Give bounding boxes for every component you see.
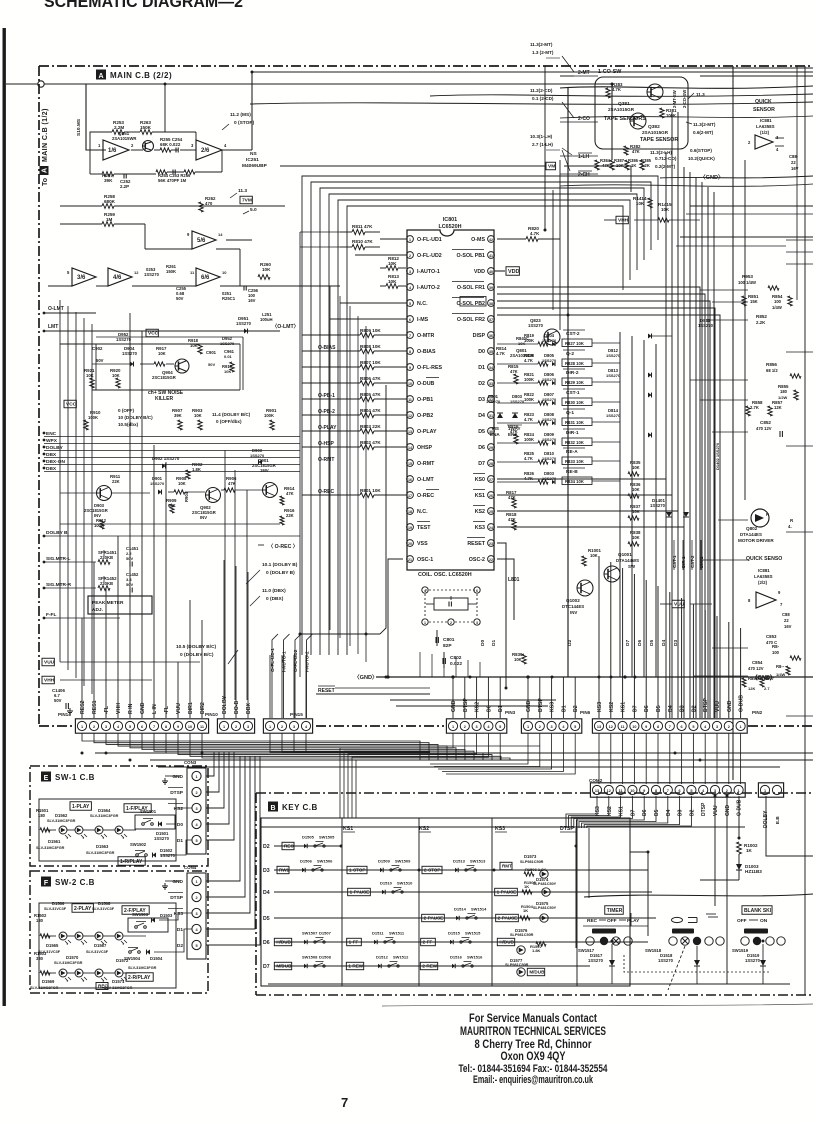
resistor R829 10K (boxed) bbox=[562, 378, 592, 386]
svg-text:KS2: KS2 bbox=[607, 806, 613, 816]
svg-text:DBX: DBX bbox=[246, 703, 252, 714]
svg-text:3: 3 bbox=[409, 270, 411, 274]
svg-text:D2: D2 bbox=[573, 705, 579, 712]
svg-text:23: 23 bbox=[489, 542, 493, 546]
svg-text:4: 4 bbox=[424, 589, 426, 593]
svg-text:10K: 10K bbox=[661, 207, 670, 212]
svg-text:D2: D2 bbox=[691, 705, 697, 712]
connector PIN10 bbox=[217, 719, 254, 733]
svg-text:50V: 50V bbox=[54, 698, 62, 703]
svg-text:C852: C852 bbox=[760, 420, 771, 425]
svg-text:KS2: KS2 bbox=[174, 806, 184, 812]
right edge horizontal stubs bbox=[786, 239, 813, 241]
svg-text:D902 1SS270: D902 1SS270 bbox=[152, 456, 180, 461]
svg-text:10K: 10K bbox=[262, 267, 271, 272]
transistor Q381 2SA1015GR bbox=[647, 84, 663, 100]
diode D811 1SS270 row CST-2 bbox=[648, 334, 652, 339]
svg-text:D6: D6 bbox=[263, 940, 270, 946]
CON3 pin 4 D0 bbox=[192, 819, 201, 828]
row wire bbox=[274, 941, 648, 943]
svg-text:OFF: OFF bbox=[607, 918, 617, 924]
svg-text:D1504: D1504 bbox=[150, 956, 163, 961]
svg-text:2.7: 2.7 bbox=[764, 686, 770, 691]
svg-text:40: 40 bbox=[489, 270, 493, 274]
svg-text:KS3: KS3 bbox=[597, 702, 603, 712]
svg-text:-FL: -FL bbox=[104, 705, 110, 714]
svg-text:10.1 (DOLBY B): 10.1 (DOLBY B) bbox=[262, 562, 298, 568]
svg-text:5: 5 bbox=[129, 725, 131, 729]
svg-text:68 1/2: 68 1/2 bbox=[766, 368, 778, 373]
svg-text:10: 10 bbox=[630, 789, 634, 793]
PEAK METER ADJ box bbox=[88, 596, 152, 614]
svg-text:2: 2 bbox=[464, 725, 466, 729]
IC pin 8 O-BIAS bbox=[407, 348, 414, 355]
svg-text:SLV-31VC3F: SLV-31VC3F bbox=[86, 950, 109, 954]
wire DTSP drop bbox=[588, 828, 590, 898]
svg-text:12: 12 bbox=[408, 414, 412, 418]
coil L801 pins 1 2 3 bbox=[422, 619, 428, 625]
svg-text:C801: C801 bbox=[443, 637, 455, 643]
wire matrix to SW1518 bbox=[630, 852, 648, 936]
svg-text:1SS270: 1SS270 bbox=[144, 272, 160, 277]
svg-text:KS3: KS3 bbox=[550, 702, 556, 712]
svg-text:D1506: D1506 bbox=[300, 859, 313, 864]
svg-text:SW1507: SW1507 bbox=[302, 931, 318, 936]
wire RESET pin down bbox=[497, 543, 506, 688]
svg-text:ON: ON bbox=[760, 918, 768, 924]
op-amp IC881a bbox=[755, 135, 773, 149]
svg-text:11: 11 bbox=[408, 398, 412, 402]
svg-text:10.2(QUICK): 10.2(QUICK) bbox=[688, 156, 715, 161]
svg-text:TAPE SENSOR: TAPE SENSOR bbox=[640, 137, 678, 143]
svg-text:E: E bbox=[44, 775, 49, 782]
svg-text:To: To bbox=[42, 178, 49, 186]
svg-text:4: 4 bbox=[195, 928, 198, 932]
svg-text:10: 10 bbox=[188, 725, 192, 729]
IC pin 11 O-PB1 bbox=[407, 396, 414, 403]
svg-text:VCC: VCC bbox=[148, 331, 159, 337]
svg-text:180: 180 bbox=[38, 813, 46, 818]
svg-text:SLP981C50R: SLP981C50R bbox=[505, 963, 529, 967]
svg-text:4.7K: 4.7K bbox=[524, 417, 533, 422]
boxed label 2-PLAY bbox=[72, 904, 93, 913]
svg-text:100K: 100K bbox=[88, 415, 98, 420]
KEY matrix top bus wire bbox=[261, 826, 745, 828]
svg-text:I-AUTO-2: I-AUTO-2 bbox=[305, 651, 311, 672]
svg-text:O-REC: O-REC bbox=[417, 493, 434, 499]
LED D1572 bbox=[75, 969, 83, 977]
svg-text:1SS270: 1SS270 bbox=[745, 958, 761, 963]
connector PIN15 bbox=[263, 719, 312, 733]
svg-text:D1564: D1564 bbox=[98, 808, 111, 813]
wires lower opamp row bbox=[48, 285, 72, 287]
svg-text:1SS270: 1SS270 bbox=[606, 413, 621, 418]
KEY matrix inner frame bbox=[261, 818, 630, 986]
wire horizontal O-LMT to IC bbox=[96, 313, 406, 479]
transistor Q902 2SC1815GR INV bbox=[206, 488, 221, 503]
svg-text:D1569: D1569 bbox=[42, 979, 55, 984]
wire bbox=[302, 494, 360, 496]
svg-text:50V: 50V bbox=[96, 358, 104, 363]
svg-text:KS1: KS1 bbox=[619, 806, 625, 816]
svg-text:GND: GND bbox=[727, 700, 733, 712]
CON3 pin 5 D1 bbox=[192, 835, 201, 844]
wires KS0-KS3 to right bundle bbox=[497, 478, 666, 480]
svg-text:O-HSP: O-HSP bbox=[318, 441, 335, 447]
LED D1568 bbox=[75, 932, 83, 940]
svg-text:CON3: CON3 bbox=[184, 760, 197, 765]
svg-text:D4: D4 bbox=[478, 413, 485, 419]
svg-text:SW1509: SW1509 bbox=[395, 859, 411, 864]
svg-text:1SS270: 1SS270 bbox=[236, 321, 252, 326]
svg-text:7VM: 7VM bbox=[242, 198, 252, 204]
wire bus: left fan to PIN14 bbox=[81, 618, 83, 718]
key switch 1-REW (D1512 SW1512) bbox=[346, 962, 363, 969]
svg-text:VUU: VUU bbox=[176, 703, 182, 714]
svg-text:100 1/4W: 100 1/4W bbox=[738, 280, 756, 285]
main board bottom dash-dot between connector boxes bbox=[316, 725, 444, 727]
svg-text:11: 11 bbox=[190, 270, 195, 275]
svg-text:C902: C902 bbox=[92, 346, 103, 351]
wire bus: long horizontals below connector row bbox=[95, 752, 813, 754]
CON4 pin 3 KS3 bbox=[192, 908, 201, 917]
wire bus: left verticals under opamp block bbox=[59, 300, 61, 662]
svg-text:0.6(2-MT): 0.6(2-MT) bbox=[693, 130, 714, 135]
IC pin 34 D1 bbox=[488, 364, 495, 371]
boxed label VM bbox=[280, 165, 546, 167]
svg-text:ENA: ENA bbox=[490, 432, 500, 437]
svg-text:DOLBY B: DOLBY B bbox=[46, 530, 68, 536]
svg-text:5: 5 bbox=[692, 725, 694, 729]
svg-text:D1509: D1509 bbox=[378, 859, 391, 864]
svg-text:7: 7 bbox=[780, 602, 783, 607]
svg-text:1-FF: 1-FF bbox=[349, 940, 359, 945]
svg-text:2.2K: 2.2K bbox=[756, 320, 766, 325]
svg-text:2-MT-SW: 2-MT-SW bbox=[672, 90, 677, 108]
IC pin 26 KS1 bbox=[488, 492, 495, 499]
svg-text:TIMER: TIMER bbox=[607, 908, 623, 914]
svg-text:22: 22 bbox=[784, 618, 789, 623]
svg-text:A: A bbox=[42, 168, 49, 173]
svg-text:R811 47K: R811 47K bbox=[352, 224, 373, 229]
wire bus: COM2 fan nested elbows bbox=[566, 796, 597, 828]
svg-text:IC881: IC881 bbox=[758, 568, 770, 573]
svg-text:20: 20 bbox=[408, 542, 412, 546]
svg-text:8: 8 bbox=[748, 598, 751, 603]
svg-text:PIN6: PIN6 bbox=[580, 710, 591, 715]
main board A dash-dot border top bbox=[39, 65, 813, 67]
overbars on IC pin labels bbox=[426, 377, 439, 379]
svg-text:VUU: VUU bbox=[713, 805, 719, 816]
LED D1567 bbox=[115, 932, 123, 940]
svg-text:B: B bbox=[270, 805, 275, 812]
svg-text:11.3(2-MT): 11.3(2-MT) bbox=[530, 42, 553, 47]
svg-text:I-AUTO-1: I-AUTO-1 bbox=[417, 269, 440, 275]
svg-text:2SC1815GR: 2SC1815GR bbox=[152, 375, 176, 380]
IC pin 18 N.C. bbox=[407, 508, 414, 515]
svg-text:D2: D2 bbox=[478, 381, 485, 387]
boxed label 1-PAUSE col3 and LED D1574 SLP481C50Y bbox=[495, 888, 518, 895]
wire bbox=[302, 446, 360, 448]
svg-text:1K: 1K bbox=[523, 908, 528, 913]
svg-text:1-PAUSE: 1-PAUSE bbox=[350, 890, 370, 895]
svg-text:470 C: 470 C bbox=[766, 640, 777, 645]
IC pin 3 I-AUTO-1 bbox=[407, 268, 414, 275]
svg-text:1: 1 bbox=[269, 725, 271, 729]
svg-text:3: 3 bbox=[293, 725, 295, 729]
svg-text:15: 15 bbox=[408, 462, 412, 466]
svg-text:SW1514: SW1514 bbox=[471, 907, 487, 912]
svg-text:1.8K: 1.8K bbox=[532, 948, 541, 953]
svg-text:SW1511: SW1511 bbox=[389, 931, 405, 936]
svg-text:10K: 10K bbox=[632, 465, 640, 470]
svg-text:1: 1 bbox=[409, 238, 411, 242]
svg-text:SCHEMATIC DIAGRAM—2: SCHEMATIC DIAGRAM—2 bbox=[44, 0, 243, 11]
svg-text:O-FL-UD2: O-FL-UD2 bbox=[417, 253, 442, 259]
svg-text:220KB: 220KB bbox=[100, 555, 113, 560]
svg-text:O-RMT: O-RMT bbox=[318, 457, 334, 463]
resistor R828 10K (boxed) bbox=[562, 359, 592, 367]
svg-text:E.B: E.B bbox=[775, 816, 780, 824]
boxed label 1-PLAY bbox=[70, 802, 91, 811]
svg-text:O-REC: O-REC bbox=[318, 489, 335, 495]
IC pin 23 RESET bbox=[488, 540, 495, 547]
svg-text:37: 37 bbox=[489, 318, 493, 322]
op-amp U251a 1/6 bbox=[103, 140, 129, 160]
switch SW1504 bbox=[128, 947, 138, 949]
wire bbox=[302, 382, 360, 384]
svg-text:I-MS: I-MS bbox=[417, 317, 429, 323]
svg-text:Q-2: Q-2 bbox=[566, 351, 574, 357]
svg-text:O-FL-UD2: O-FL-UD2 bbox=[293, 649, 299, 672]
svg-text:D3: D3 bbox=[673, 640, 679, 646]
svg-text:TEST: TEST bbox=[417, 525, 431, 531]
svg-text:D4: D4 bbox=[666, 809, 672, 816]
svg-text:D4: D4 bbox=[661, 640, 667, 646]
wire vertical left of coil bbox=[380, 385, 386, 634]
svg-text:56K 470PF 1M: 56K 470PF 1M bbox=[158, 178, 187, 183]
svg-text:11.3(2-LH): 11.3(2-LH) bbox=[650, 150, 672, 155]
svg-text:MS: MS bbox=[492, 426, 499, 431]
svg-text:C853: C853 bbox=[766, 634, 777, 639]
motor driver Q802 DTA144ES bbox=[751, 509, 769, 527]
svg-text:11.3(2-MT): 11.3(2-MT) bbox=[693, 122, 716, 127]
svg-text:2.7 (1-LH): 2.7 (1-LH) bbox=[532, 142, 553, 147]
svg-text:2/6: 2/6 bbox=[201, 148, 210, 154]
svg-text:12K: 12K bbox=[748, 686, 755, 691]
IC U801 LC6520H body bbox=[407, 230, 494, 570]
svg-text:RW1: RW1 bbox=[279, 868, 290, 873]
svg-text:GND: GND bbox=[172, 774, 183, 780]
diode D1503 bbox=[152, 918, 156, 923]
svg-text:3: 3 bbox=[105, 725, 107, 729]
svg-text:SW1508: SW1508 bbox=[302, 955, 318, 960]
svg-text:PIN3: PIN3 bbox=[505, 710, 516, 715]
svg-text:VHH: VHH bbox=[44, 678, 55, 684]
svg-text:1/4W: 1/4W bbox=[772, 305, 782, 310]
svg-text:2: 2 bbox=[748, 140, 751, 145]
key switch 2-FF (D1515 SW1515) bbox=[421, 938, 436, 945]
boxed label VCC lower bbox=[64, 400, 76, 408]
svg-text:L801: L801 bbox=[508, 577, 520, 583]
svg-text:KEY C.B: KEY C.B bbox=[282, 803, 318, 812]
svg-text:IC801: IC801 bbox=[443, 217, 457, 223]
svg-text:2-PLAY: 2-PLAY bbox=[74, 906, 92, 912]
svg-text:1-REW: 1-REW bbox=[348, 964, 363, 969]
svg-text:D1566: D1566 bbox=[52, 901, 65, 906]
svg-text:PIN2: PIN2 bbox=[752, 710, 763, 715]
wire noise killer rails bbox=[60, 343, 240, 345]
svg-text:D7: D7 bbox=[632, 705, 638, 712]
svg-text:GND: GND bbox=[140, 702, 146, 714]
svg-text:Q1001: Q1001 bbox=[618, 552, 632, 557]
svg-text:10: 10 bbox=[408, 382, 412, 386]
svg-text:3: 3 bbox=[551, 725, 553, 729]
svg-text:1: 1 bbox=[424, 621, 426, 625]
svg-text:0.2(2-MT): 0.2(2-MT) bbox=[655, 164, 676, 169]
wire O-DUB drop from COM2 bbox=[738, 796, 740, 838]
svg-text:5: 5 bbox=[195, 839, 197, 843]
svg-text:9: 9 bbox=[778, 590, 781, 595]
svg-text:10K: 10K bbox=[632, 509, 640, 514]
IC pin 21 OSC-1 bbox=[407, 556, 414, 563]
svg-text:11.2 (MS): 11.2 (MS) bbox=[230, 112, 251, 118]
svg-text:O-PB-2: O-PB-2 bbox=[318, 409, 335, 415]
svg-text:D6: D6 bbox=[637, 640, 643, 646]
IC pin 24 KS3 bbox=[488, 524, 495, 531]
svg-text:42: 42 bbox=[489, 238, 493, 242]
svg-text:H/DUB: H/DUB bbox=[276, 940, 291, 945]
svg-text:〈GND〉: 〈GND〉 bbox=[354, 673, 378, 681]
svg-text:N.C.: N.C. bbox=[417, 301, 428, 307]
svg-text:0 (OFF/dbx): 0 (OFF/dbx) bbox=[216, 419, 242, 424]
IC pin 41 O-SOL PB1 bbox=[488, 252, 495, 259]
svg-text:7: 7 bbox=[667, 789, 669, 793]
svg-text:50V: 50V bbox=[176, 296, 184, 301]
svg-text:SIG.MTR-L: SIG.MTR-L bbox=[46, 556, 71, 562]
svg-text:13: 13 bbox=[408, 430, 412, 434]
svg-text:COIL. OSC. LC6520H: COIL. OSC. LC6520H bbox=[418, 572, 472, 578]
SW-1 board dash-dot border bbox=[30, 766, 208, 866]
IC pin 5 N.C. bbox=[407, 300, 414, 307]
svg-text:2: 2 bbox=[728, 725, 730, 729]
svg-text:KS2: KS2 bbox=[609, 702, 615, 712]
svg-text:D7: D7 bbox=[478, 461, 485, 467]
wire bus: mid horizontals out of right pins bbox=[497, 287, 700, 718]
key switch 1-STOP (D1509 SW1509) bbox=[347, 866, 367, 873]
svg-text:IC881: IC881 bbox=[760, 118, 772, 123]
svg-text:47K: 47K bbox=[510, 369, 518, 374]
svg-text:D1515: D1515 bbox=[448, 931, 461, 936]
svg-text:19: 19 bbox=[408, 526, 412, 530]
svg-text:SW1505: SW1505 bbox=[319, 835, 335, 840]
svg-text:3: 3 bbox=[716, 725, 718, 729]
svg-text:4.7K: 4.7K bbox=[612, 87, 621, 92]
svg-text:BLANK SKI: BLANK SKI bbox=[744, 908, 772, 914]
svg-text:13: 13 bbox=[595, 789, 599, 793]
svg-text:O-DUB: O-DUB bbox=[737, 799, 743, 816]
svg-text:VSS: VSS bbox=[417, 541, 428, 547]
diode D1003 HZ11B3 bbox=[736, 864, 742, 870]
box around DISP label bbox=[460, 297, 486, 307]
svg-text:2: 2 bbox=[93, 725, 95, 729]
svg-text:-FL: -FL bbox=[164, 705, 170, 714]
svg-text:22K: 22K bbox=[112, 479, 120, 484]
svg-text:38: 38 bbox=[489, 302, 493, 306]
svg-text:82P: 82P bbox=[443, 643, 452, 649]
svg-text:KS0: KS0 bbox=[475, 477, 485, 483]
svg-text:DISP: DISP bbox=[473, 333, 486, 339]
svg-text:3: 3 bbox=[476, 725, 478, 729]
svg-text:2-FF: 2-FF bbox=[423, 940, 433, 945]
svg-text:5: 5 bbox=[195, 944, 197, 948]
svg-text:2: 2 bbox=[235, 725, 237, 729]
coil L801 pin 6 bbox=[474, 587, 480, 593]
CON4 pin 1 GND bbox=[192, 876, 201, 885]
svg-text:10K: 10K bbox=[514, 657, 522, 662]
svg-text:0 (OFF): 0 (OFF) bbox=[118, 408, 135, 413]
wire stubs right column to bundle bbox=[700, 289, 748, 291]
svg-text:CON4: CON4 bbox=[184, 865, 197, 870]
svg-text:VDD: VDD bbox=[508, 269, 519, 275]
switch SW1502 bbox=[135, 850, 145, 852]
svg-text:R953: R953 bbox=[742, 274, 753, 279]
transistor Q1002 DTC144ES INV bbox=[577, 580, 593, 596]
wire vertical VSS bbox=[388, 559, 403, 677]
key switch 1-FF (D1511 SW1511) bbox=[347, 938, 362, 945]
svg-text:470 12V: 470 12V bbox=[756, 426, 772, 431]
svg-text:1SS270: 1SS270 bbox=[150, 481, 165, 486]
op-amp U251c 5/6 bbox=[192, 231, 216, 249]
svg-text:OSC-1: OSC-1 bbox=[417, 557, 433, 563]
svg-text:D1: D1 bbox=[177, 838, 183, 844]
op-amp U251f 6/6 bbox=[196, 268, 220, 286]
svg-text:R904: R904 bbox=[184, 491, 189, 502]
key switch 2-PAUSE col3 (D1517? SW1511) bbox=[496, 914, 519, 921]
board label E SW-1 C.B bbox=[41, 772, 51, 782]
svg-text:12: 12 bbox=[607, 789, 611, 793]
svg-text:D1514: D1514 bbox=[454, 907, 467, 912]
transistor Q1001 DTA144WS SW bbox=[604, 566, 620, 582]
wire VUU drop from COM2 bbox=[714, 796, 716, 906]
TIMER switch boxed label bbox=[605, 906, 624, 915]
boxed label 2-R/PLAY bbox=[126, 973, 153, 982]
svg-text:D7: D7 bbox=[625, 640, 631, 646]
junction dots on buses bbox=[164, 83, 167, 86]
wire GND drop from COM2 bbox=[726, 796, 728, 984]
connector PIN6 bbox=[521, 719, 581, 733]
svg-text:26: 26 bbox=[489, 494, 493, 498]
LED D1562 SLV-31MC3FGR bbox=[59, 826, 67, 834]
svg-text:SENSOR: SENSOR bbox=[753, 107, 775, 113]
svg-text:(1/2): (1/2) bbox=[760, 130, 770, 135]
svg-text:47K: 47K bbox=[286, 491, 294, 496]
svg-text:RESET: RESET bbox=[318, 688, 335, 694]
boxed label VHH mid bbox=[616, 216, 628, 224]
svg-text:VM: VM bbox=[548, 164, 555, 170]
svg-text:D6: D6 bbox=[644, 705, 650, 712]
svg-text:14: 14 bbox=[408, 446, 412, 450]
svg-text:MAURITRON TECHNICAL SERVICES: MAURITRON TECHNICAL SERVICES bbox=[460, 1024, 606, 1038]
LED D1565 bbox=[95, 932, 103, 940]
svg-text:SW1516: SW1516 bbox=[467, 955, 483, 960]
ground symbol near PIN14 bbox=[69, 708, 71, 711]
svg-text:O-LMT: O-LMT bbox=[48, 306, 64, 312]
svg-text:NS: NS bbox=[250, 151, 257, 157]
svg-text:KS1: KS1 bbox=[343, 826, 353, 832]
svg-text:O-FL-UD-1: O-FL-UD-1 bbox=[270, 648, 276, 672]
svg-text:D0: D0 bbox=[480, 640, 486, 646]
